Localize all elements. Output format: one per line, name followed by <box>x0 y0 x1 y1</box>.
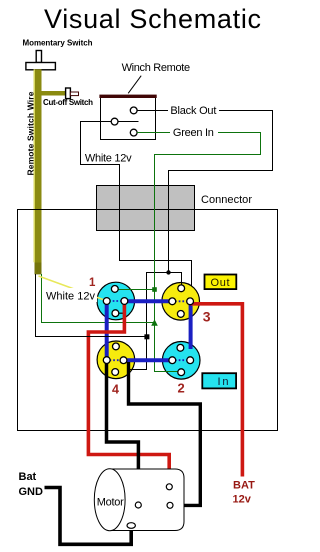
svg-text:3: 3 <box>203 309 211 325</box>
junction green at momentary branch <box>151 319 158 326</box>
svg-text:Remote Switch Wire: Remote Switch Wire <box>26 91 36 175</box>
terminal solenoid3 bottom <box>177 311 184 318</box>
box Out <box>205 275 237 290</box>
terminal solenoid4 left <box>103 357 110 364</box>
terminal remote common <box>111 118 118 125</box>
svg-text:Black Out: Black Out <box>170 105 216 117</box>
pointer line to winch remote box <box>128 76 141 94</box>
label White 12v (at solenoid 1) <box>44 288 97 303</box>
terminal motor bat <box>166 484 172 490</box>
svg-text:Green In: Green In <box>173 127 214 139</box>
wire white 12v from remote (black thin) <box>81 122 192 287</box>
svg-text:GND: GND <box>19 486 44 498</box>
dotted link solenoid 3 <box>175 300 188 302</box>
terminal solenoid4 top <box>113 343 120 350</box>
svg-text:1: 1 <box>89 277 96 289</box>
terminal motor ground <box>127 523 135 529</box>
momentary switch SW1 <box>26 51 56 70</box>
wire momentary black conductor <box>36 274 148 337</box>
label Green In <box>170 126 218 140</box>
winch remote box U1 <box>99 95 156 140</box>
solenoid 3 (yellow) <box>162 283 200 321</box>
connector block <box>97 186 195 231</box>
terminal solenoid4 right <box>120 357 127 364</box>
terminal solenoid4 bottom <box>112 369 119 376</box>
dotted link solenoid 4 <box>110 359 122 361</box>
remote pole line <box>118 121 139 123</box>
dotted link solenoid 2 <box>175 359 188 361</box>
wire blue solenoid3-solenoid2 <box>189 301 193 349</box>
label BAT 12v <box>233 480 256 506</box>
svg-text:White 12v: White 12v <box>46 291 96 303</box>
terminal motor field1 <box>135 502 141 508</box>
terminal solenoid1 right <box>121 298 128 305</box>
terminal solenoid1 bottom <box>112 310 119 317</box>
dotted link solenoid 1 <box>109 300 122 302</box>
wire green branch to solenoid 1 <box>115 289 155 291</box>
svg-text:Winch Remote: Winch Remote <box>122 62 191 74</box>
wire blue solenoid4-solenoid2 <box>124 358 173 362</box>
svg-text:2: 2 <box>178 381 185 396</box>
wire green in from remote <box>137 133 261 372</box>
wire black out from remote <box>137 111 273 274</box>
svg-text:Cut-off Switch: Cut-off Switch <box>43 98 93 107</box>
svg-text:4: 4 <box>112 383 119 397</box>
wire battery ground <box>45 488 132 545</box>
wire blue solenoid1-solenoid4 <box>105 301 109 360</box>
junction dot momentary black <box>144 334 149 339</box>
solenoid 2 (cyan) <box>162 342 200 380</box>
terminal remote out <box>130 107 137 114</box>
wire white 12v pale yellow diagonal <box>39 276 108 301</box>
terminal solenoid3 left <box>169 298 176 305</box>
label Black Out <box>168 104 219 118</box>
svg-text:12v: 12v <box>233 493 252 505</box>
wire blue solenoid1-solenoid3 <box>124 299 172 303</box>
wire momentary green conductor <box>42 274 155 323</box>
wire black solenoid4 right to motor <box>129 362 201 505</box>
terminal remote in <box>130 129 137 136</box>
svg-text:BAT: BAT <box>233 480 255 492</box>
terminal motor field2 <box>167 502 173 508</box>
terminal solenoid2 bottom <box>178 369 185 376</box>
wire red solenoid3 to battery <box>190 304 242 477</box>
junction dot black out <box>166 270 170 274</box>
terminal solenoid2 top <box>177 344 184 351</box>
wire remote switch (olive) <box>34 69 66 274</box>
cut-off switch SW2 <box>66 88 79 99</box>
svg-text:Bat: Bat <box>19 471 37 483</box>
svg-text:Visual Schematic: Visual Schematic <box>44 4 261 34</box>
terminal solenoid2 right <box>187 357 194 364</box>
svg-text:Out: Out <box>211 277 230 289</box>
solenoid 1 (cyan) <box>97 282 135 320</box>
outer enclosure box <box>18 210 278 431</box>
svg-text:Connector: Connector <box>201 194 252 206</box>
terminal solenoid3 top <box>178 285 185 292</box>
wire black out branch <box>129 273 182 370</box>
svg-text:White 12v: White 12v <box>85 153 132 165</box>
motor body <box>94 469 184 531</box>
box In <box>202 373 236 388</box>
wire red solenoid1 to motor <box>88 303 169 485</box>
label Bat GND <box>19 471 44 498</box>
svg-text:In: In <box>218 376 229 388</box>
terminal solenoid2 left <box>169 357 176 364</box>
terminal solenoid3 right <box>187 298 194 305</box>
solenoid 4 (yellow) <box>97 341 135 379</box>
terminal solenoid1 left <box>103 298 110 305</box>
wire stub solenoid1 bottom terminal <box>116 312 126 314</box>
wire black solenoid4 left to motor <box>107 360 139 503</box>
svg-text:Momentary Switch: Momentary Switch <box>23 39 93 48</box>
junction green at solenoid1 branch <box>152 287 157 292</box>
svg-text:Motor: Motor <box>97 497 124 509</box>
terminal solenoid1 top <box>111 286 118 293</box>
